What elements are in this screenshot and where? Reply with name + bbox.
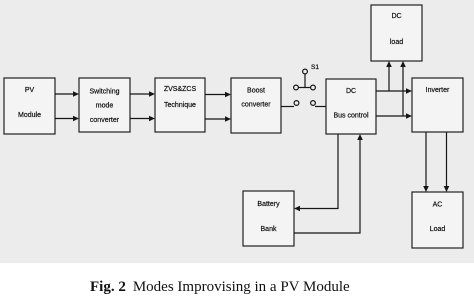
arrowhead into inverter top bbox=[406, 88, 412, 94]
svg-text:Bank: Bank bbox=[261, 226, 277, 233]
box Inverter bbox=[412, 78, 463, 132]
wire inverter to AC load (left drop) bbox=[425, 132, 427, 187]
svg-text:S1: S1 bbox=[311, 64, 319, 71]
arrowhead into switching converter top bbox=[73, 91, 79, 97]
svg-text:Load: Load bbox=[430, 226, 446, 233]
box Switching mode converter bbox=[79, 78, 130, 132]
wire junction to DC load (left riser) bbox=[388, 67, 390, 92]
box Boost converter bbox=[231, 78, 281, 133]
arrowhead into AC load left bbox=[423, 186, 429, 192]
arrowhead into DC load left bbox=[386, 61, 392, 67]
arrowhead into battery bank bbox=[294, 206, 300, 212]
wire PV to switching converter (bottom) bbox=[54, 118, 74, 120]
wire DC bus control to inverter (top) bbox=[376, 90, 407, 92]
switch S1 bbox=[294, 69, 316, 105]
arrowhead into ZVS bottom bbox=[149, 116, 155, 122]
arrowhead into boost converter bottom bbox=[225, 116, 231, 122]
arrowhead into switching converter bottom bbox=[73, 116, 79, 122]
svg-text:Technique: Technique bbox=[164, 102, 196, 109]
arrowhead into DC load right bbox=[400, 61, 406, 67]
box AC Load bbox=[412, 192, 463, 248]
box DC Bus control bbox=[326, 79, 376, 134]
wire ZVS to boost converter (top) bbox=[205, 94, 226, 96]
arrowhead into ZVS top bbox=[149, 91, 155, 97]
wire junction to DC load (right riser) bbox=[402, 67, 404, 117]
wire boost converter to switch S1 bbox=[281, 106, 294, 108]
svg-text:load: load bbox=[390, 39, 403, 46]
wire switching converter to ZVS (top) bbox=[130, 93, 150, 95]
svg-text:converter: converter bbox=[90, 117, 120, 124]
arrowhead into DC bus control bottom bbox=[357, 134, 363, 140]
svg-text:AC: AC bbox=[433, 202, 443, 209]
box ZVS&ZCS Technique bbox=[155, 78, 205, 132]
wire DC bus control to inverter (bottom) bbox=[376, 115, 407, 117]
arrowhead into inverter bottom bbox=[406, 113, 412, 119]
box PV Module bbox=[4, 78, 55, 134]
svg-text:ZVS&ZCS: ZVS&ZCS bbox=[164, 86, 197, 93]
svg-text:PV: PV bbox=[25, 87, 35, 94]
svg-text:mode: mode bbox=[96, 103, 114, 110]
svg-text:Battery: Battery bbox=[257, 201, 280, 208]
svg-text:Switching: Switching bbox=[90, 89, 120, 96]
wire PV to switching converter (top) bbox=[54, 93, 74, 95]
wire ZVS to boost converter (bottom) bbox=[205, 118, 226, 120]
wire switching converter to ZVS (bottom) bbox=[130, 118, 150, 120]
wire inverter to AC load (right drop) bbox=[446, 132, 448, 187]
figure caption bbox=[90, 279, 350, 296]
wire battery up to DC bus control bbox=[294, 140, 360, 234]
svg-text:Module: Module bbox=[18, 112, 41, 119]
svg-text:Boost: Boost bbox=[247, 87, 265, 94]
wire DC bus control down to battery bbox=[300, 134, 339, 209]
arrowhead into boost converter top bbox=[225, 92, 231, 98]
wire switch S1 to DC bus control bbox=[315, 106, 326, 108]
svg-text:DC: DC bbox=[346, 88, 356, 95]
box Battery Bank bbox=[243, 191, 294, 246]
svg-text:Inverter: Inverter bbox=[426, 87, 450, 94]
box DC load bbox=[371, 5, 422, 61]
svg-text:Bus control: Bus control bbox=[333, 113, 368, 120]
arrowhead into AC load right bbox=[444, 186, 450, 192]
svg-text:converter: converter bbox=[241, 102, 271, 109]
svg-text:DC: DC bbox=[391, 13, 401, 20]
